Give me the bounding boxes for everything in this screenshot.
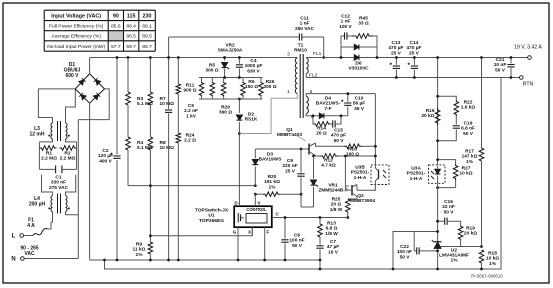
svg-text:C1: C1: [55, 175, 61, 181]
svg-text:FL1: FL1: [313, 51, 322, 57]
svg-text:R17: R17: [465, 149, 474, 155]
svg-text:230: 230: [143, 13, 152, 19]
svg-text:57.7: 57.7: [111, 44, 121, 50]
svg-text:50 V: 50 V: [444, 209, 455, 215]
svg-text:11 kΩ: 11 kΩ: [133, 247, 146, 253]
svg-text:MMBT3904: MMBT3904: [350, 198, 375, 204]
svg-text:C6: C6: [294, 233, 300, 239]
svg-text:90: 90: [113, 13, 119, 19]
svg-text:50 V: 50 V: [400, 254, 411, 260]
svg-text:C14: C14: [409, 40, 418, 46]
svg-text:7-F: 7-F: [324, 106, 331, 112]
svg-text:1 nF: 1 nF: [341, 19, 351, 25]
svg-text:88.4: 88.4: [126, 24, 136, 30]
svg-text:20 Ω: 20 Ω: [316, 131, 327, 137]
svg-text:200 µH: 200 µH: [29, 201, 46, 207]
svg-text:U3A: U3A: [411, 166, 421, 172]
svg-text:50 V: 50 V: [495, 67, 506, 73]
svg-text:2.2 MΩ: 2.2 MΩ: [60, 156, 76, 162]
svg-text:C13: C13: [391, 40, 400, 46]
svg-text:R8: R8: [160, 140, 166, 146]
svg-text:89.5: 89.5: [142, 34, 152, 40]
svg-text:1%: 1%: [136, 252, 144, 258]
svg-text:1 kV: 1 kV: [186, 113, 197, 119]
svg-text:U1: U1: [208, 213, 215, 219]
svg-text:R18: R18: [488, 251, 497, 257]
svg-text:R1: R1: [46, 151, 52, 157]
svg-text:ZMM5244B-7: ZMM5244B-7: [318, 188, 348, 194]
svg-text:59.7: 59.7: [126, 44, 136, 50]
svg-text:R22: R22: [464, 100, 473, 106]
svg-text:300 Ω: 300 Ω: [263, 84, 276, 90]
svg-text:VAC: VAC: [24, 251, 35, 257]
svg-text:470 µF: 470 µF: [388, 45, 403, 51]
svg-text:R3: R3: [137, 96, 143, 102]
svg-text:1%: 1%: [269, 184, 277, 190]
svg-text:4.7 kΩ: 4.7 kΩ: [321, 163, 336, 169]
svg-text:U3B: U3B: [355, 165, 365, 171]
svg-text:C22: C22: [400, 244, 409, 250]
svg-text:VR1: VR1: [328, 183, 338, 189]
svg-text:PS2501-: PS2501-: [351, 170, 370, 176]
svg-text:35 V: 35 V: [354, 106, 365, 112]
svg-text:50 V: 50 V: [334, 138, 345, 144]
svg-text:C16: C16: [444, 199, 453, 205]
svg-text:R11: R11: [186, 83, 195, 89]
svg-text:D2: D2: [248, 112, 254, 118]
svg-text:1: 1: [287, 89, 290, 95]
svg-text:R9: R9: [136, 242, 142, 248]
svg-text:BAV21WS-: BAV21WS-: [316, 101, 341, 107]
svg-text:L: L: [12, 234, 16, 240]
svg-text:R16: R16: [426, 108, 435, 114]
svg-text:470 µF: 470 µF: [406, 45, 421, 51]
svg-text:2.2 Ω: 2.2 Ω: [184, 138, 196, 144]
svg-text:C9: C9: [287, 158, 293, 164]
svg-text:R6: R6: [248, 79, 254, 85]
svg-text:56 µF: 56 µF: [353, 101, 365, 107]
svg-text:RTN: RTN: [523, 82, 534, 88]
svg-text:6.8 Ω: 6.8 Ω: [326, 226, 338, 232]
svg-text:3: 3: [287, 52, 290, 58]
svg-text:16 V: 16 V: [328, 249, 339, 255]
svg-text:R29: R29: [221, 105, 230, 111]
svg-text:T1: T1: [298, 43, 304, 49]
svg-text:115: 115: [127, 13, 136, 19]
svg-text:100 V: 100 V: [339, 24, 352, 30]
svg-text:2.2 MΩ: 2.2 MΩ: [41, 156, 57, 162]
svg-text:C4: C4: [250, 58, 256, 64]
svg-text:100 nF: 100 nF: [289, 238, 304, 244]
svg-text:10 nF: 10 nF: [494, 62, 507, 68]
svg-text:12 mH: 12 mH: [29, 131, 44, 137]
svg-text:C11: C11: [300, 16, 309, 22]
svg-text:20 kΩ: 20 kΩ: [421, 113, 434, 119]
svg-text:R10: R10: [348, 147, 357, 153]
svg-text:630 V: 630 V: [247, 68, 260, 74]
svg-text:R20: R20: [268, 174, 277, 180]
svg-text:R26: R26: [266, 79, 275, 85]
svg-text:Q1: Q1: [286, 127, 293, 133]
svg-text:Input Voltage (VAC): Input Voltage (VAC): [51, 13, 101, 19]
svg-text:10 kΩ: 10 kΩ: [459, 171, 472, 177]
svg-text:R2: R2: [64, 151, 70, 157]
svg-text:PS2501-: PS2501-: [407, 171, 426, 177]
svg-text:R25: R25: [332, 197, 341, 203]
svg-text:390 Ω: 390 Ω: [219, 110, 232, 116]
svg-text:D3: D3: [267, 152, 273, 158]
svg-text:10 MΩ: 10 MΩ: [160, 101, 175, 107]
svg-text:25 V: 25 V: [409, 50, 420, 56]
svg-text:Full Power Efficiency (%): Full Power Efficiency (%): [49, 24, 104, 30]
svg-text:1%: 1%: [451, 257, 459, 263]
svg-text:120 µF: 120 µF: [98, 153, 113, 159]
svg-text:N: N: [11, 257, 15, 263]
svg-text:1-H-A: 1-H-A: [410, 176, 423, 182]
svg-text:100 Ω: 100 Ω: [346, 152, 359, 158]
svg-text:400 V: 400 V: [99, 158, 112, 164]
svg-text:C2: C2: [102, 148, 108, 154]
svg-text:TOPSwitch-JX: TOPSwitch-JX: [195, 207, 229, 213]
svg-text:R5: R5: [209, 63, 215, 69]
svg-text:22 nF: 22 nF: [442, 204, 455, 210]
svg-text:1 nF: 1 nF: [300, 21, 310, 27]
svg-text:220 nF: 220 nF: [282, 163, 297, 169]
svg-text:R7: R7: [160, 96, 166, 102]
svg-text:470 pF: 470 pF: [331, 133, 346, 139]
svg-text:1/8 W: 1/8 W: [325, 231, 338, 237]
svg-text:86.7: 86.7: [142, 44, 152, 50]
svg-text:150 Ω: 150 Ω: [245, 84, 258, 90]
svg-text:C10: C10: [355, 96, 364, 102]
svg-text:C7: C7: [330, 239, 336, 245]
svg-text:330 nF: 330 nF: [51, 180, 66, 186]
svg-text:275 VAC: 275 VAC: [49, 185, 69, 191]
svg-text:TOP266EG: TOP266EG: [199, 218, 224, 224]
svg-text:CONTROL: CONTROL: [246, 207, 267, 212]
svg-text:19 V, 3.42 A: 19 V, 3.42 A: [514, 45, 542, 51]
svg-text:C12: C12: [341, 14, 350, 20]
svg-text:R14: R14: [317, 126, 326, 132]
svg-text:300 Ω: 300 Ω: [205, 68, 218, 74]
svg-text:25 V: 25 V: [285, 168, 296, 174]
svg-text:191 kΩ: 191 kΩ: [264, 179, 280, 185]
svg-text:47 µF: 47 µF: [327, 244, 339, 250]
svg-text:10 MΩ: 10 MΩ: [160, 145, 175, 151]
svg-text:R27: R27: [462, 166, 471, 172]
svg-text:R4: R4: [137, 140, 143, 146]
svg-text:RM10: RM10: [294, 48, 307, 54]
svg-text:33 Ω: 33 Ω: [358, 21, 369, 27]
svg-text:BAV19WS: BAV19WS: [259, 157, 283, 163]
svg-text:R19: R19: [466, 226, 475, 232]
svg-text:D6: D6: [355, 61, 361, 67]
svg-text:20 kΩ: 20 kΩ: [464, 231, 477, 237]
svg-text:89.1: 89.1: [142, 24, 152, 30]
svg-text:2.2 nF: 2.2 nF: [184, 108, 198, 114]
svg-text:1%: 1%: [466, 159, 474, 165]
svg-text:10 kΩ: 10 kΩ: [486, 256, 499, 262]
svg-text:85.6: 85.6: [111, 24, 121, 30]
svg-text:1000 pF: 1000 pF: [245, 63, 263, 69]
svg-text:50 V: 50 V: [463, 131, 474, 137]
svg-text:R24: R24: [186, 133, 195, 139]
svg-text:C19: C19: [464, 121, 473, 127]
svg-text:SMAJ250A: SMAJ250A: [218, 48, 243, 54]
svg-text:4 A: 4 A: [27, 223, 35, 229]
svg-text:R12: R12: [324, 158, 333, 164]
svg-text:25 V: 25 V: [391, 50, 402, 56]
svg-text:D4: D4: [325, 96, 331, 102]
svg-text:RS1K: RS1K: [245, 117, 258, 123]
svg-text:20 Ω: 20 Ω: [331, 202, 342, 208]
svg-text:C21: C21: [496, 57, 505, 63]
svg-text:C5: C5: [188, 103, 194, 109]
svg-text:R13: R13: [327, 221, 336, 227]
svg-text:Average Efficiency (%): Average Efficiency (%): [52, 34, 102, 40]
svg-text:100 nF: 100 nF: [397, 249, 412, 255]
svg-text:900 Ω: 900 Ω: [183, 88, 196, 94]
svg-text:250 VAC: 250 VAC: [295, 26, 315, 32]
svg-text:VR2: VR2: [225, 43, 235, 49]
svg-text:147 kΩ: 147 kΩ: [462, 154, 478, 160]
svg-text:50 V: 50 V: [292, 243, 303, 249]
svg-text:600 V: 600 V: [65, 73, 79, 79]
svg-text:6.8 nF: 6.8 nF: [461, 126, 475, 132]
svg-text:1-H-A: 1-H-A: [354, 175, 367, 181]
svg-text:F: F: [266, 230, 269, 235]
svg-text:R45: R45: [359, 16, 368, 22]
svg-text:86.5: 86.5: [126, 34, 136, 40]
svg-text:1.6 kΩ: 1.6 kΩ: [461, 105, 476, 111]
svg-text:V30100C: V30100C: [348, 66, 369, 72]
svg-text:No-load Input Power (mW): No-load Input Power (mW): [47, 44, 105, 50]
svg-text:1%: 1%: [489, 261, 497, 267]
svg-text:1/8 W: 1/8 W: [330, 207, 343, 213]
svg-text:G: G: [233, 230, 237, 235]
svg-text:PI-5667-090610: PI-5667-090610: [471, 274, 503, 279]
svg-text:C15: C15: [334, 128, 343, 134]
